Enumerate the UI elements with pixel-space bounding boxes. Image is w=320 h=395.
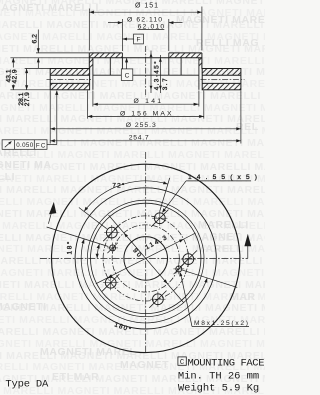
leader M8x1.25(x2) <box>181 274 249 327</box>
hatch fills <box>50 53 241 90</box>
leader 14.55(x5) bolt hole diameter <box>163 181 251 211</box>
svg-text:Ø 156 MAX: Ø 156 MAX <box>120 111 172 118</box>
front view: outer circle Ø255.3 <box>52 164 240 352</box>
hat pilot cylinder <box>93 58 199 75</box>
angular dimension 180deg between M8 holes <box>81 239 237 323</box>
svg-text:MAGNETI MARE: MAGNETI MARE <box>176 14 265 26</box>
svg-text:RELLI MAG: RELLI MAG <box>196 37 259 49</box>
svg-text:MAGNETI MA: MAGNETI MA <box>0 159 52 171</box>
svg-text:MAGNETI MARELLI MAGNETI MARELL: MAGNETI MARELLI MAGNETI MARELLI MAGNETI … <box>0 184 265 196</box>
brake disc section: right braking band outline <box>202 69 241 90</box>
diameter dimension 114.3 diagonal <box>96 233 196 284</box>
svg-text:MAGNETI MARELLI MAGNETI MARELL: MAGNETI MARELLI MAGNETI MARELLI MAGNETI … <box>0 267 265 279</box>
threaded hole M8-1 M8x1.25 <box>107 243 118 254</box>
dimension 28.1/27.9 disc thickness <box>25 69 51 90</box>
svg-text:MAGNET: MAGNET <box>192 231 241 243</box>
runout tolerance frame 0.050 FC <box>2 91 57 149</box>
svg-text:72°: 72° <box>112 181 124 189</box>
rotation direction arrow (left tangent) <box>48 213 51 224</box>
svg-text:MAGNETI MARELLI MAGNETI MARELL: MAGNETI MARELLI MAGNETI MARELLI MAGNETI … <box>0 196 265 208</box>
dimension Ø151 <box>89 7 202 51</box>
horizontal centreline <box>40 257 248 259</box>
svg-text:42.9: 42.9 <box>12 69 19 83</box>
svg-text:14.55(x5): 14.55(x5) <box>188 174 257 181</box>
dimension 6.2 flange thickness <box>36 30 89 69</box>
svg-text:MAGNETI: MAGNETI <box>0 301 47 313</box>
wheel bolt hole A Ø14.55 <box>151 210 168 227</box>
wheel bolt hole E Ø14.55 <box>180 251 197 268</box>
diameter dimension 90 diagonal <box>109 215 184 302</box>
hat circle Ø151 <box>91 203 201 313</box>
angular dimension 72deg between bolt holes <box>79 178 170 229</box>
svg-text:MOUNTING FACE: MOUNTING FACE <box>188 357 265 369</box>
svg-text:Ø 141: Ø 141 <box>134 98 162 105</box>
dimension Ø62.110/62.010 bore <box>108 19 183 51</box>
dimension Ø255.3 <box>50 91 241 144</box>
section view direction arrow (right) <box>247 245 249 259</box>
svg-text:0.050: 0.050 <box>16 142 34 149</box>
dimension Ø141 <box>93 91 199 107</box>
wheel bolt hole C Ø14.55 <box>102 274 119 291</box>
svg-text:6.2: 6.2 <box>31 34 38 44</box>
svg-text:M8x1.25(x2): M8x1.25(x2) <box>194 320 248 327</box>
dimension 254.7 <box>50 140 241 142</box>
svg-text:Ø 255.3: Ø 255.3 <box>126 122 156 129</box>
datum C box with leader to mounting face <box>121 59 133 81</box>
dimension Ø156 MAX <box>88 91 204 119</box>
svg-text:Weight 5.9 Kg: Weight 5.9 Kg <box>178 383 259 395</box>
svg-text:C: C <box>125 73 130 80</box>
svg-text:MAGNETI MAREL: MAGNETI MAREL <box>40 346 136 358</box>
vane centerline left <box>47 46 245 97</box>
svg-text:Min. TH 26 mm: Min. TH 26 mm <box>178 371 259 383</box>
bolt circle Ø114.3 dash-dot <box>103 216 188 301</box>
svg-text:18°: 18° <box>66 241 74 254</box>
circle Ø156 <box>87 200 204 317</box>
svg-text:MAGNET: MAGNET <box>120 359 169 371</box>
note C MOUNTING FACE <box>178 357 265 369</box>
dimension 4.3x45 chamfer <box>150 51 152 94</box>
svg-text:C: C <box>180 359 185 367</box>
threaded hole M8-2 M8x1.25 <box>173 264 184 275</box>
dimension 43.1/42.9 overall height <box>10 58 50 90</box>
friction band inner circle <box>75 188 216 329</box>
svg-text:Type DA: Type DA <box>5 378 49 390</box>
bore edges <box>122 53 168 75</box>
section vertical centerline <box>145 46 147 97</box>
svg-text:3.7: 3.7 <box>162 78 169 90</box>
svg-text:FC: FC <box>36 142 46 149</box>
vertical centreline <box>145 152 147 353</box>
svg-text:62.010: 62.010 <box>138 24 165 31</box>
svg-text:Ø 151: Ø 151 <box>135 2 158 9</box>
wheel bolt hole B Ø14.55 <box>103 224 120 241</box>
svg-text:ELLI: ELLI <box>0 171 15 183</box>
svg-text:REL: REL <box>236 121 259 133</box>
svg-text:MAGNETI MARELLI: MAGNETI MARELLI <box>0 2 99 14</box>
svg-text:254.7: 254.7 <box>129 135 149 142</box>
svg-text:27.9: 27.9 <box>24 92 31 106</box>
centre bore Ø62 <box>124 237 168 281</box>
datum F box <box>122 34 143 44</box>
circle Ø90 dash-dot <box>112 225 179 292</box>
wheel bolt hole D Ø14.55 <box>149 291 166 308</box>
band inner edges <box>93 58 199 90</box>
brake disc section: left braking band outline <box>50 69 89 90</box>
svg-text:F: F <box>136 37 140 44</box>
svg-text:ETI MAR: ETI MAR <box>52 371 99 383</box>
hat flange outline <box>89 53 202 69</box>
watermark darker patches <box>0 2 265 383</box>
angular dimension 18deg M8 hole offset <box>47 227 109 258</box>
svg-text:MAGNETI MARELLI MAGNETI MARELL: MAGNETI MARELLI MAGNETI MARELLI MAGNETI … <box>0 90 265 102</box>
dimension 3.7 <box>159 55 161 93</box>
